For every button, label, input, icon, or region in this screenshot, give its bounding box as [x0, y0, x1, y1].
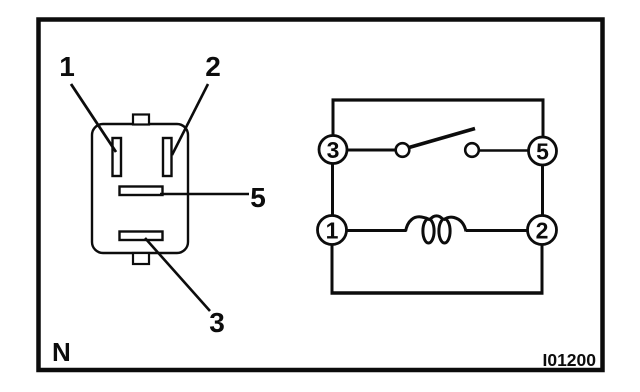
svg-text:I01200: I01200 — [542, 350, 596, 370]
wire: terminal 3 up to top rail — [332, 99, 335, 138]
switch SW — [347, 129, 528, 157]
switch left contact — [396, 143, 410, 157]
svg-text:5: 5 — [250, 182, 266, 213]
wire: terminal 5 down to terminal 2 — [541, 165, 544, 216]
wire: terminal 2 down to bottom rail — [541, 245, 544, 295]
svg-text:1: 1 — [326, 218, 339, 244]
wire: coil to terminal 2 — [466, 229, 527, 232]
wire: terminal 1 to coil — [346, 229, 406, 232]
svg-text:2: 2 — [205, 51, 221, 82]
svg-text:2: 2 — [536, 218, 549, 244]
wire: switch contact to terminal 5 — [479, 149, 528, 152]
wire: terminal 3 down to terminal 1 — [331, 163, 334, 217]
leader line to pin 3 — [145, 238, 210, 311]
wire: terminal 3 to switch contact — [347, 149, 395, 152]
pin 1 terminal slot — [113, 138, 122, 176]
terminal 1 — [318, 216, 347, 245]
leader line to pin 5 — [160, 193, 249, 195]
pin 5 terminal slot — [120, 187, 163, 196]
terminal 2 — [528, 216, 557, 245]
pin 3 terminal slot — [120, 232, 163, 241]
switch blade — [409, 129, 475, 148]
connector bottom tab — [133, 253, 149, 264]
svg-text:3: 3 — [209, 307, 225, 338]
terminal 3 — [319, 136, 347, 164]
pin 2 terminal slot — [163, 138, 172, 176]
leader line to pin 2 — [172, 84, 208, 155]
relay coil L — [346, 216, 527, 243]
svg-text:3: 3 — [327, 137, 340, 163]
wire: bottom rail — [331, 291, 544, 294]
connector top tab — [133, 115, 149, 125]
relay connector body — [92, 124, 188, 253]
leader line to pin 1 — [71, 84, 116, 152]
wire: top rail down to terminal 5 — [542, 99, 545, 139]
terminal 5 — [529, 137, 557, 165]
svg-text:N: N — [52, 337, 71, 367]
svg-text:1: 1 — [59, 51, 75, 82]
coil windings — [406, 217, 431, 232]
switch right contact — [465, 143, 479, 157]
wire: top rail — [332, 98, 545, 101]
wire: terminal 1 down to bottom rail — [331, 244, 334, 295]
svg-text:5: 5 — [536, 139, 549, 165]
